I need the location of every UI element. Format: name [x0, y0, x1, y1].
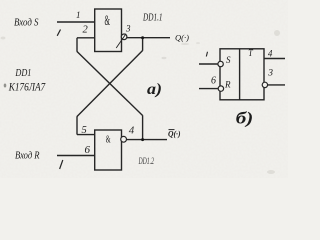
- node Q junction dot: [141, 36, 144, 39]
- tick mark under R wire: [60, 160, 63, 169]
- wire output 4 of trigger: [264, 58, 285, 60]
- inverter circle pin3: [121, 34, 127, 40]
- svg-text:3: 3: [267, 68, 273, 78]
- svg-text:&: &: [105, 13, 111, 29]
- svg-text:К176ЛА7: К176ЛА7: [8, 79, 46, 93]
- svg-text:4: 4: [268, 48, 273, 58]
- inverter circle pin4: [121, 136, 127, 142]
- paper background: [0, 0, 288, 178]
- svg-text:Q(·): Q(·): [168, 129, 181, 139]
- tick mark 1 under S wire: [57, 30, 60, 36]
- svg-text:5: 5: [82, 125, 87, 136]
- wire output 3 of trigger: [268, 84, 285, 86]
- wire input S: [57, 21, 95, 23]
- stray pen slash on gate DD1.1: [116, 34, 126, 48]
- wire vertical from node Q: [142, 38, 144, 51]
- svg-text:4: 4: [129, 125, 135, 137]
- svg-text:DD1: DD1: [15, 68, 32, 79]
- trigger symbol divider: [239, 49, 241, 100]
- svg-text:&: &: [106, 135, 111, 146]
- svg-text:б): б): [236, 108, 254, 127]
- svg-text:Q(·): Q(·): [175, 32, 189, 42]
- wire output pin3: [127, 37, 170, 39]
- inverter circle S input: [218, 61, 223, 66]
- svg-text:1: 1: [76, 10, 81, 20]
- trigger symbol box: [220, 49, 264, 100]
- tick mark pin1 of trigger: [206, 52, 207, 57]
- ink speck left margin: [4, 84, 7, 88]
- svg-text:R: R: [224, 79, 231, 89]
- svg-text:Вход S: Вход S: [14, 18, 39, 29]
- wire pin5 horizontal: [77, 134, 95, 136]
- svg-text:2: 2: [83, 25, 89, 36]
- wire pin2 horizontal: [77, 37, 95, 39]
- wire diagonal pin2 side to Qbar: [77, 52, 143, 116]
- wire S input of trigger: [199, 63, 218, 65]
- wire output pin4: [127, 139, 167, 141]
- node Qbar junction dot: [141, 138, 144, 141]
- svg-text:S: S: [226, 55, 231, 65]
- inverter circle R input: [218, 86, 223, 91]
- wire vertical to pin2: [76, 38, 78, 52]
- gate DD1.2 body: [95, 130, 122, 170]
- wire diagonal Q to pin5 side: [77, 51, 143, 117]
- svg-text:а): а): [147, 81, 162, 98]
- wire vertical to node Qbar: [142, 115, 144, 139]
- svg-text:6: 6: [211, 76, 216, 87]
- wire R input of trigger: [199, 88, 218, 90]
- gate DD1.1 body: [95, 9, 122, 52]
- svg-text:Т: Т: [248, 49, 253, 59]
- svg-text:3: 3: [125, 23, 131, 33]
- svg-text:6: 6: [85, 144, 91, 156]
- overline of Qbar label: [169, 129, 175, 131]
- svg-text:Вход R: Вход R: [15, 151, 40, 162]
- wire vertical to pin5: [76, 116, 78, 134]
- svg-text:DD1.1: DD1.1: [142, 12, 162, 23]
- wire input R pin6: [57, 155, 95, 157]
- inverter circle output 3: [262, 82, 267, 87]
- svg-text:DD1.2: DD1.2: [138, 157, 154, 167]
